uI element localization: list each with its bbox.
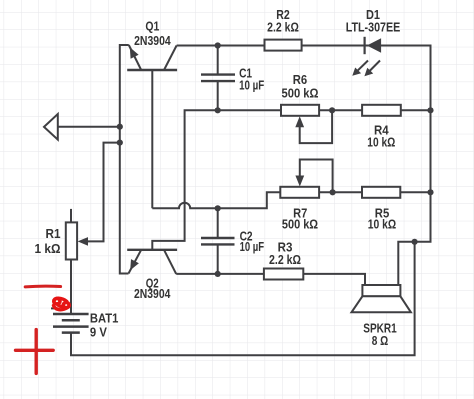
svg-text:Q1: Q1 [145,20,159,34]
svg-text:1 kΩ: 1 kΩ [35,242,61,256]
svg-text:10 kΩ: 10 kΩ [368,217,396,231]
svg-text:500 kΩ: 500 kΩ [282,87,319,101]
svg-text:500 kΩ: 500 kΩ [282,217,318,231]
svg-text:10 µF: 10 µF [239,78,264,92]
svg-text:10 µF: 10 µF [240,240,265,254]
svg-text:2.2 kΩ: 2.2 kΩ [267,21,299,35]
svg-text:8 Ω: 8 Ω [372,334,389,348]
svg-text:2.2 kΩ: 2.2 kΩ [269,253,301,267]
svg-text:10 kΩ: 10 kΩ [367,136,395,150]
svg-text:2N3904: 2N3904 [134,34,171,48]
svg-text:2N3904: 2N3904 [134,287,170,301]
svg-text:R6: R6 [293,73,307,87]
svg-text:BAT1: BAT1 [90,312,119,326]
svg-text:LTL-307EE: LTL-307EE [346,21,401,35]
svg-text:R1: R1 [46,227,61,241]
svg-text:9 V: 9 V [90,325,108,339]
